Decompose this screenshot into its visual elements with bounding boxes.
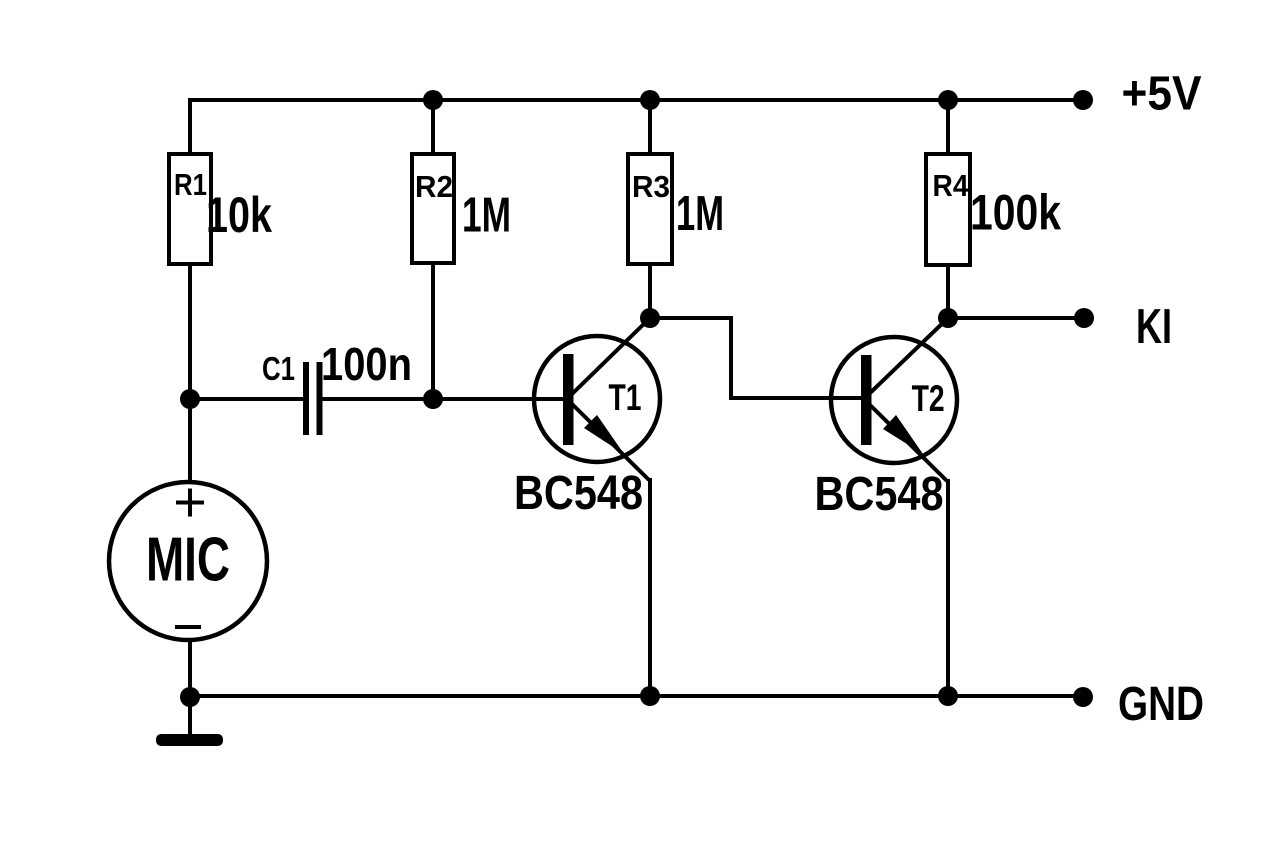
wire R1 top lead [188, 98, 192, 156]
wire node D to KI terminal [948, 316, 1084, 320]
svg-text:BC548: BC548 [815, 468, 944, 521]
svg-text:1M: 1M [462, 189, 511, 243]
wire R2 bottom to node B [431, 261, 435, 401]
svg-text:C1: C1 [262, 350, 295, 387]
wire node A to C1 [190, 397, 303, 401]
node A [180, 389, 200, 409]
svg-text:GND: GND [1118, 678, 1204, 731]
transistor T1 [514, 336, 660, 520]
svg-text:R3: R3 [632, 169, 670, 204]
terminal KI [1074, 308, 1094, 328]
node C [640, 308, 660, 328]
node GND MIC [180, 687, 200, 707]
terminal GND [1073, 687, 1093, 707]
wire R4 top lead [946, 100, 950, 156]
wire C1 to node B and T1 base [322, 397, 564, 401]
resistor R3 [628, 154, 724, 264]
svg-text:MIC: MIC [146, 526, 230, 595]
resistor R1 [169, 154, 272, 264]
wire MIC to ground node [188, 641, 192, 734]
ground [156, 734, 223, 746]
node D [938, 308, 958, 328]
node top R2 [423, 90, 443, 110]
wire R4 bottom to node D [946, 262, 950, 320]
microphone MIC [109, 482, 267, 640]
wire R1 bottom to node A [188, 262, 192, 401]
capacitor C1 [262, 338, 412, 435]
svg-text:T2: T2 [912, 378, 945, 419]
node top R3 [640, 90, 660, 110]
node B [423, 389, 443, 409]
wire T1 collector [572, 318, 650, 394]
svg-text:R4: R4 [933, 168, 970, 203]
svg-text:R2: R2 [415, 169, 453, 204]
wire R3 bottom to node C [648, 263, 652, 320]
svg-text:T1: T1 [609, 377, 642, 418]
wire R3 top lead [648, 100, 652, 156]
svg-text:KI: KI [1136, 300, 1172, 354]
svg-text:100k: 100k [970, 185, 1061, 241]
svg-text:BC548: BC548 [514, 467, 643, 520]
transistor T2 [815, 337, 958, 521]
terminal +5V [1073, 90, 1093, 110]
wire node A to MIC [188, 399, 192, 482]
node top R4 [938, 90, 958, 110]
node GND T1 [640, 686, 660, 706]
wire T2 emitter [869, 404, 948, 696]
wire top +5V rail [188, 98, 1083, 102]
svg-text:10k: 10k [206, 187, 272, 243]
wire node C to T2 base [650, 318, 862, 398]
wire GND rail [190, 694, 1083, 698]
wire T1 emitter [572, 404, 650, 696]
svg-text:100n: 100n [321, 338, 412, 390]
svg-text:1M: 1M [676, 187, 724, 241]
resistor R2 [412, 154, 511, 263]
resistor R4 [926, 154, 1061, 265]
svg-text:+5V: +5V [1122, 68, 1202, 121]
wire T2 collector [869, 318, 948, 394]
wire R2 top lead [431, 100, 435, 156]
node GND T2 [938, 686, 958, 706]
svg-text:R1: R1 [174, 167, 207, 202]
